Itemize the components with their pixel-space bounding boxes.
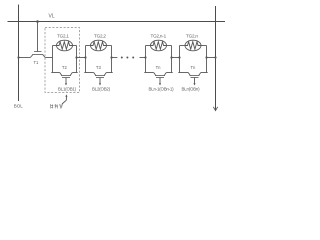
wire gate lead Q4 with arrow xyxy=(194,78,196,84)
transistor Q0 source leg xyxy=(30,55,33,58)
svg-text:BL1(OB1): BL1(OB1) xyxy=(58,86,77,91)
transistor Q2 gate bar xyxy=(96,77,104,79)
svg-text:BLn-1(OBn-1): BLn-1(OBn-1) xyxy=(149,86,175,91)
transistor Q1 channel bar xyxy=(61,75,71,77)
node junction dot xyxy=(84,56,86,58)
svg-text:T2: T2 xyxy=(62,65,68,70)
transistor Q3 gate bar xyxy=(156,77,164,79)
node junction dot xyxy=(144,56,146,58)
svg-text:Tn: Tn xyxy=(191,65,197,70)
svg-text:TG2,n-1: TG2,n-1 xyxy=(151,33,167,38)
callout arrow to BL1 xyxy=(65,96,67,100)
wire cell1 to cell2 xyxy=(77,57,86,59)
wire cell 3 right vertical xyxy=(171,46,173,73)
wire cell 2 right vertical xyxy=(111,46,113,73)
wire gate lead Q3 with arrow xyxy=(159,78,161,84)
wire cell 4 right vertical xyxy=(206,46,208,73)
svg-text:BLn(OBn): BLn(OBn) xyxy=(182,86,201,91)
transistor Q3 legs xyxy=(154,73,156,76)
wire cell3 to cell4 xyxy=(172,57,180,59)
callout CJK annotation (initialisation) xyxy=(51,104,63,108)
wire cell 4 left vertical xyxy=(179,46,181,73)
wire memristor 1 right stub xyxy=(73,45,77,47)
svg-text:T1: T1 xyxy=(34,60,40,65)
transistor Q2 channel bar xyxy=(95,75,105,77)
transistor Q1 shoulders xyxy=(51,72,59,74)
transistor Q3 channel bar xyxy=(155,75,165,77)
transistor Q3 shoulders xyxy=(144,72,153,74)
transistor Q4 gate bar xyxy=(191,77,199,79)
svg-text:TG2,2: TG2,2 xyxy=(94,33,106,38)
wire memristor 4 left stub xyxy=(180,45,186,47)
wire right rail with output arrow xyxy=(215,6,217,110)
wire cell2 right stub out xyxy=(112,57,118,59)
memristor cell 4 (ellipse with zigzag) xyxy=(185,40,201,51)
wire cell 2 left vertical xyxy=(85,46,87,73)
wire cell 1 right vertical xyxy=(76,46,78,73)
svg-text:BL2(OB2): BL2(OB2) xyxy=(92,86,111,91)
wire cell4 to right rail xyxy=(207,57,216,59)
wire memristor 2 right stub xyxy=(107,45,112,47)
wire Q0 to cell 1 xyxy=(45,57,52,59)
transistor Q0 gate bar xyxy=(34,51,42,53)
memristor cell 2 (ellipse with zigzag) xyxy=(91,40,107,51)
wire memristor 3 left stub xyxy=(146,45,151,47)
transistor Q1 legs xyxy=(60,73,62,76)
node junction dot xyxy=(178,56,180,58)
wire memristor 3 right stub xyxy=(167,45,172,47)
callout leader xyxy=(62,101,66,105)
node junction dot xyxy=(17,56,19,58)
node junction dot xyxy=(214,56,216,58)
transistor Q4 legs xyxy=(188,73,190,76)
svg-text:TG2,1: TG2,1 xyxy=(57,33,69,38)
wire gate lead Q2 with arrow xyxy=(99,78,101,84)
wire gate lead Q1 with arrow xyxy=(65,78,67,84)
dashed unit-cell box xyxy=(45,28,80,93)
wire cell 1 left vertical xyxy=(52,46,54,73)
wire left rail BOL xyxy=(18,5,20,102)
transistor Q0 drain leg xyxy=(43,55,46,58)
memristor cell 3 (ellipse with zigzag) xyxy=(151,40,167,51)
node junction dot xyxy=(110,56,112,58)
transistor Q1 gate bar xyxy=(62,77,70,79)
wire into cell 3 xyxy=(140,57,146,59)
transistor Q0 channel bar xyxy=(32,54,43,56)
transistor Q2 legs xyxy=(94,73,96,76)
wire cell 3 left vertical xyxy=(145,46,147,73)
svg-text:T3: T3 xyxy=(96,65,102,70)
node junction dot gate of Q0 on VL xyxy=(36,20,39,23)
wire memristor 4 right stub xyxy=(201,45,207,47)
svg-text:VL: VL xyxy=(49,14,55,20)
svg-text:TG2,n: TG2,n xyxy=(186,33,198,38)
wire VL top line xyxy=(8,21,226,23)
memristor cell 1 (ellipse with zigzag) xyxy=(57,40,73,51)
transistor Q2 shoulders xyxy=(84,72,93,74)
transistor Q4 shoulders xyxy=(178,72,188,74)
wire left rail to Q0 xyxy=(19,57,31,59)
node junction dot xyxy=(170,56,172,58)
node ellipsis dots xyxy=(121,57,134,59)
node junction dot xyxy=(205,56,207,58)
transistor Q4 channel bar xyxy=(190,75,200,77)
wire gate lead Q0 xyxy=(37,22,39,52)
wire memristor 1 left stub xyxy=(53,45,57,47)
node junction dot xyxy=(75,56,77,58)
wire memristor 2 left stub xyxy=(86,45,91,47)
svg-text:BOL: BOL xyxy=(14,103,24,108)
svg-text:Tn: Tn xyxy=(156,65,162,70)
